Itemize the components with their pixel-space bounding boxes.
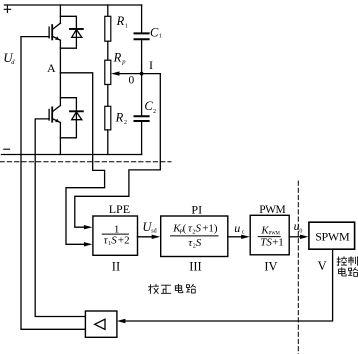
svg-text:u: u: [234, 221, 240, 235]
svg-text:SPWM: SPWM: [315, 230, 350, 244]
svg-text:IV: IV: [264, 259, 277, 273]
svg-text:1: 1: [159, 34, 162, 40]
arrow into LPE upper input: [84, 225, 93, 229]
wire Rp wiper arrow from node I: [119, 73, 142, 75]
svg-text:S: S: [196, 223, 202, 235]
transistor Q1 symbol: [49, 23, 60, 40]
glyph jiao: [149, 284, 159, 293]
wire right rail upper (to C1): [141, 5, 143, 33]
node - label: [4, 148, 10, 150]
svg-text:PI: PI: [191, 202, 202, 216]
R2 value label: [115, 111, 127, 126]
node A label: [47, 61, 56, 75]
svg-text:sd: sd: [151, 229, 156, 235]
wire bottom DC bus (-): [2, 154, 142, 156]
glyph lu (2): [348, 268, 358, 277]
C1 value label: [150, 25, 162, 39]
node + label: [4, 6, 10, 12]
wire PWM to SPWM with arrow: [289, 236, 301, 238]
diode D2: [70, 111, 83, 119]
glyph zhi: [348, 257, 357, 266]
node I junction dot: [140, 72, 144, 76]
driver box with triangle: [85, 311, 117, 337]
transistor Q1 (upper IGBT) collector wire: [59, 5, 61, 23]
block SPWM (V): [309, 222, 355, 249]
wire R1 to Rp: [107, 41, 109, 60]
arrow into driver box: [117, 319, 126, 323]
glyph kong: [337, 257, 347, 266]
svg-text:R: R: [113, 51, 122, 65]
svg-text:S: S: [111, 235, 117, 247]
arrow into LPE lower input: [84, 242, 93, 246]
svg-text:V: V: [318, 259, 327, 273]
wire C1 to node I: [141, 40, 143, 74]
diode D1: [70, 29, 83, 37]
wire top DC bus (+): [5, 4, 142, 6]
diode D2 branch wires: [60, 98, 76, 138]
wire LPE to PI with arrow: [138, 236, 153, 238]
svg-text:C: C: [150, 25, 159, 39]
label control circuit (kong zhi / dian lu): [337, 257, 358, 277]
glyph zheng: [161, 285, 171, 293]
wire R1 top feed: [107, 5, 109, 16]
glyph lu: [186, 284, 196, 293]
R1 value label: [116, 14, 128, 29]
wire PI to PWM with arrow: [228, 236, 242, 238]
C2 value label: [144, 99, 156, 115]
diode D1 branch wires: [60, 16, 76, 48]
svg-text:III: III: [189, 260, 202, 274]
wire node I to C2: [141, 74, 143, 116]
potentiometer Rp: [105, 60, 111, 84]
svg-text:+1): +1): [202, 223, 218, 235]
wire Q2 gate lead and drive wire 2: [35, 119, 85, 317]
block LPE (II): [93, 216, 138, 255]
glyph dian (2): [339, 268, 347, 277]
wire R2 to bottom bus: [107, 130, 109, 155]
wire C2 to bottom bus: [141, 122, 143, 155]
glyph dian: [175, 284, 183, 293]
wire Q2 emitter to bottom bus: [59, 123, 61, 155]
svg-text:0: 0: [299, 229, 302, 235]
svg-text:LPE: LPE: [109, 202, 130, 216]
dashed separator horizontal: [0, 161, 171, 163]
dashed separator vertical: [297, 181, 299, 354]
svg-text:TS: TS: [260, 236, 272, 248]
svg-text:R: R: [115, 111, 124, 125]
wire node A branch to control: [60, 73, 104, 245]
svg-text:1: 1: [125, 24, 128, 30]
svg-text:1: 1: [114, 223, 120, 235]
wire node 0 branch to control (node I to LPE upper input): [75, 74, 161, 228]
resistor R1: [105, 16, 111, 41]
block PWM (IV): [250, 215, 289, 255]
wire Q1 gate lead: [21, 36, 49, 38]
svg-text:I: I: [149, 58, 153, 72]
label u_c: [234, 221, 245, 235]
wire SPWM output down and across to driver: [125, 249, 333, 321]
svg-text:A: A: [47, 61, 56, 75]
svg-text:+1: +1: [272, 236, 284, 248]
svg-text:2: 2: [124, 120, 127, 126]
node I label: [149, 58, 153, 72]
wire Rp to R2: [107, 85, 109, 107]
label u_0: [294, 219, 303, 235]
capacitor C1: [135, 33, 149, 39]
label U_sd: [142, 220, 156, 235]
svg-text:(: (: [183, 223, 187, 235]
capacitor C2: [135, 116, 149, 121]
resistor R2: [105, 106, 111, 130]
node 0 label: [129, 74, 135, 86]
svg-text:II: II: [112, 259, 120, 273]
wire Q1 gate drive wire 1: [21, 37, 85, 330]
label correction circuit (jiao zheng dian lu): [149, 284, 196, 293]
Rp value label: [113, 51, 127, 66]
block PI (III): [161, 216, 228, 257]
node U_d label: [3, 50, 15, 66]
svg-text:R: R: [116, 14, 125, 28]
svg-text:2: 2: [153, 109, 156, 115]
svg-text:S: S: [196, 237, 202, 249]
driver triangle symbol: [95, 319, 105, 329]
svg-text:PWM: PWM: [259, 204, 285, 216]
svg-text:0: 0: [129, 74, 135, 86]
transistor Q2 (lower IGBT) collector wire: [59, 73, 61, 106]
svg-text:c: c: [242, 229, 245, 235]
transistor Q2 symbol: [49, 106, 60, 123]
wire Q1 emitter to node A: [59, 40, 61, 73]
svg-text:p: p: [121, 58, 126, 65]
svg-text:+2: +2: [118, 235, 130, 247]
